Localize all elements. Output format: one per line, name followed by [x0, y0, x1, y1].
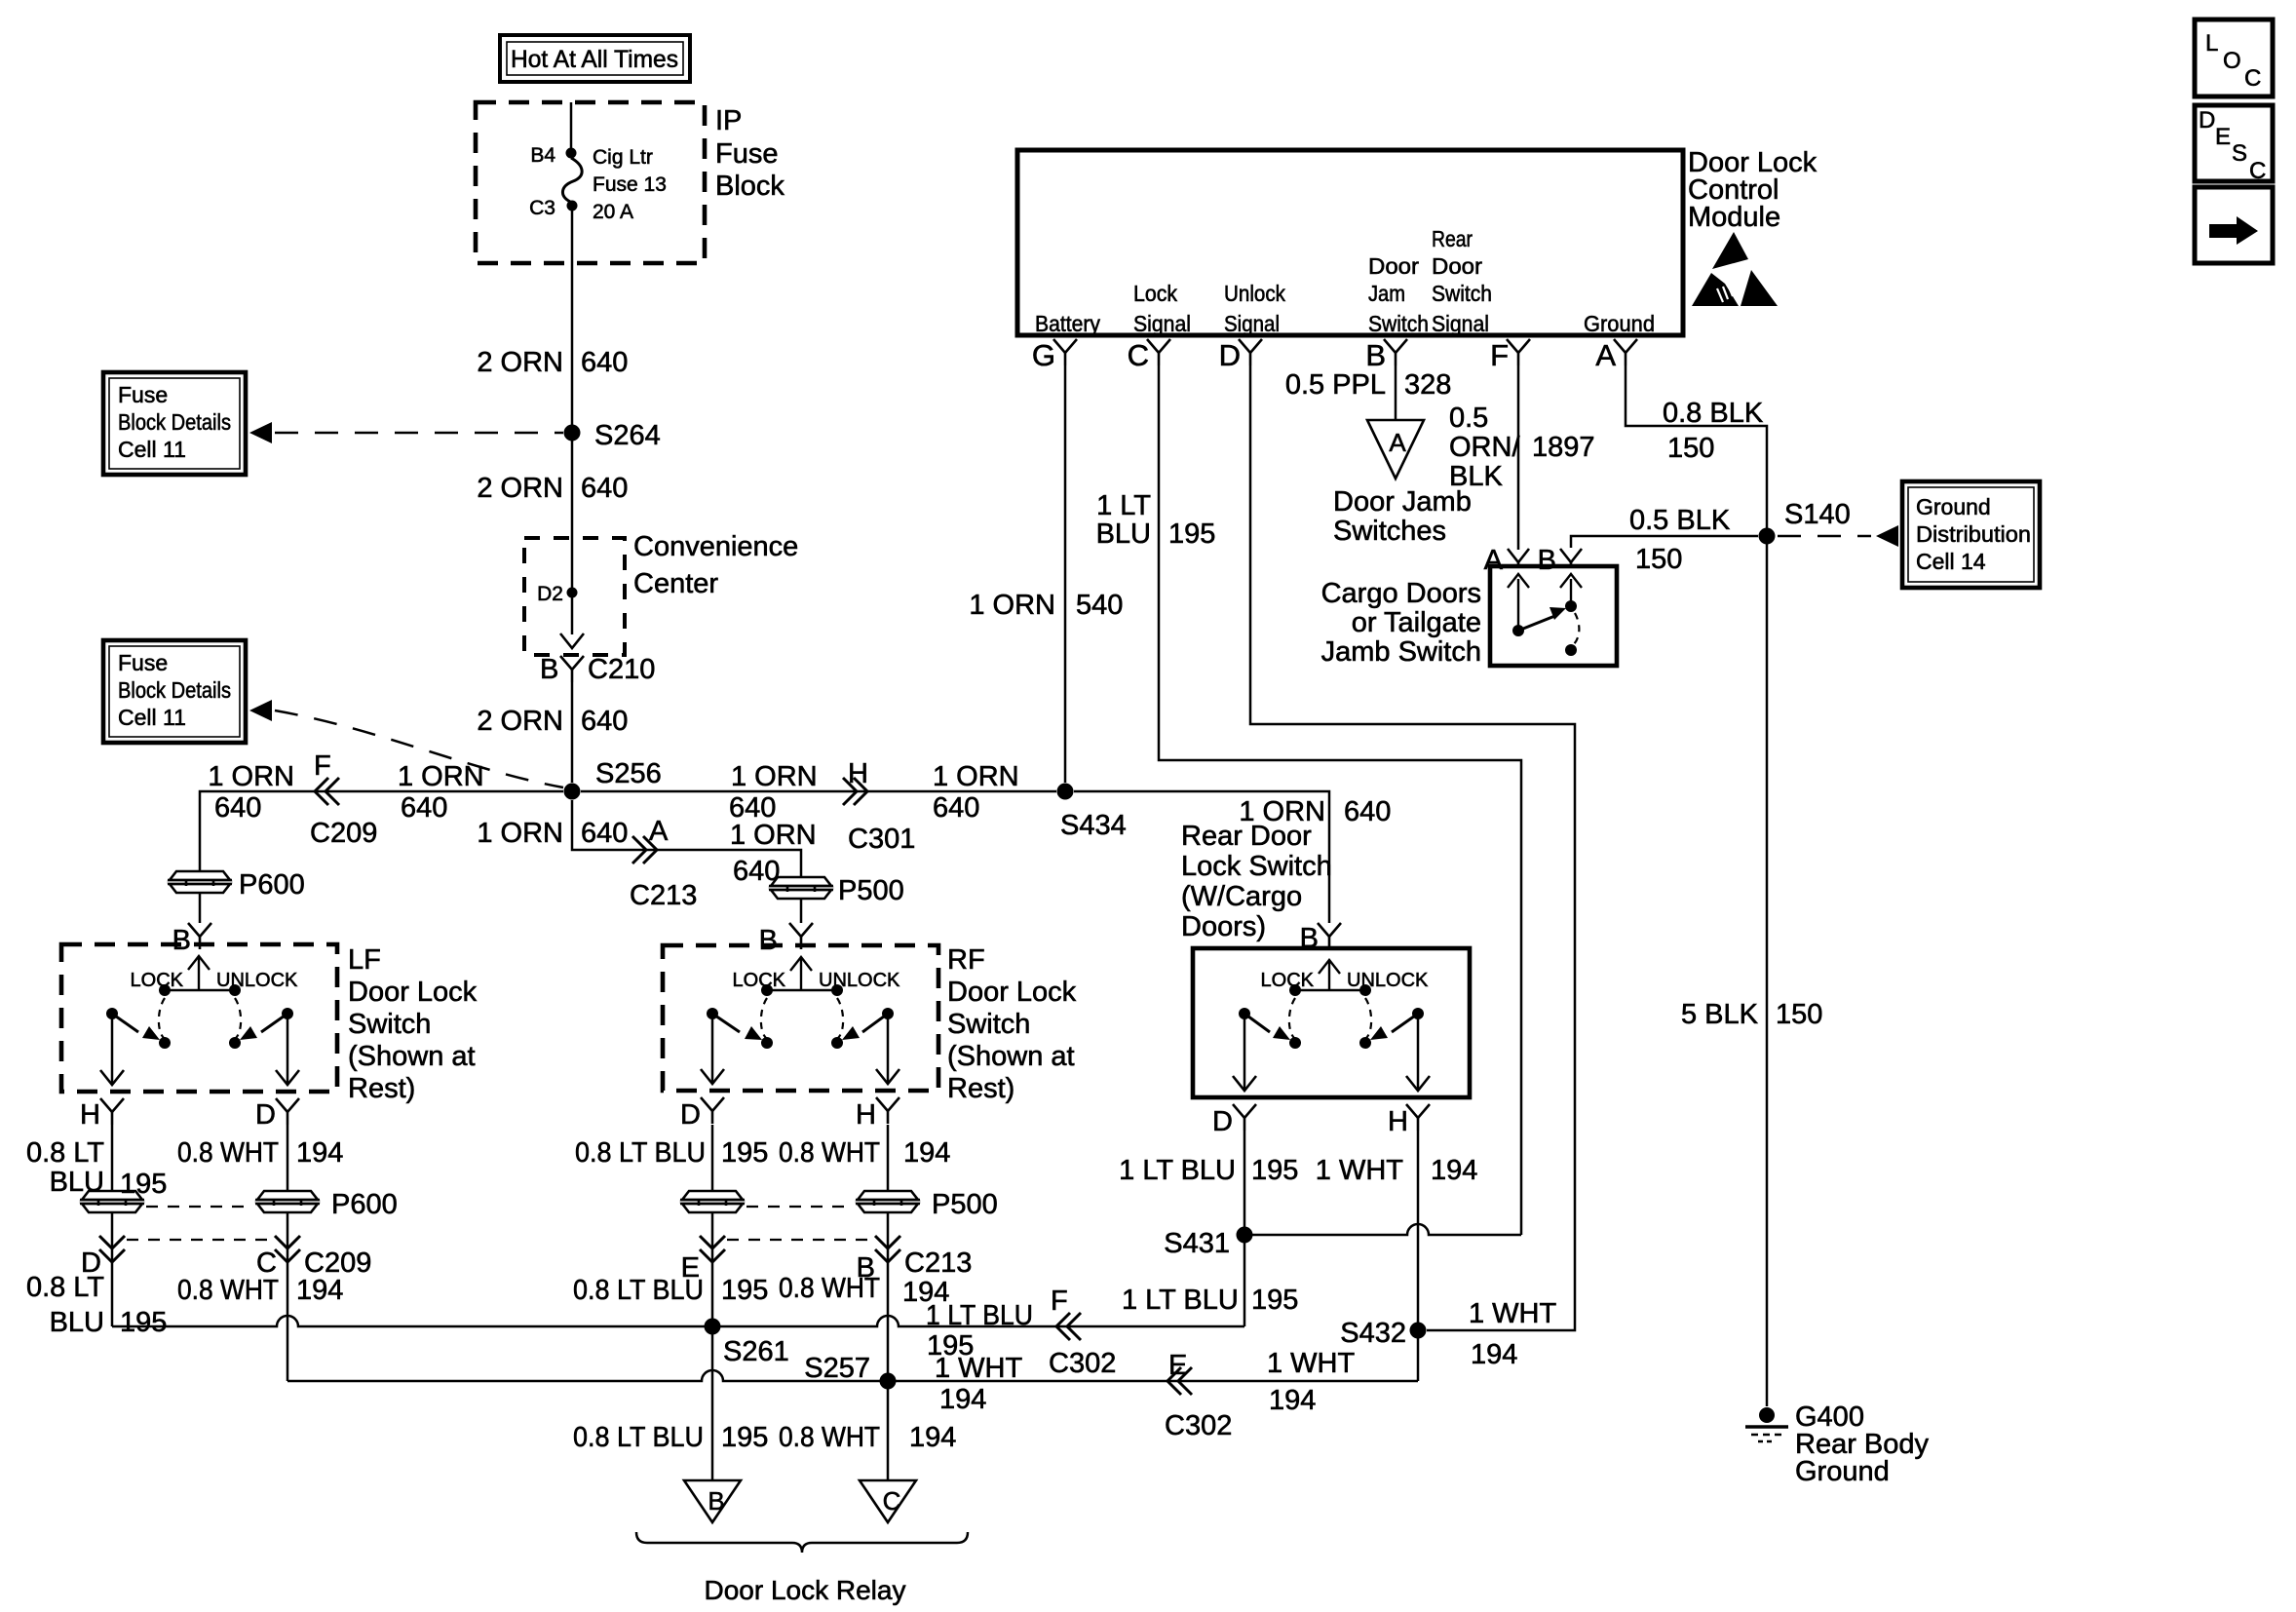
pin label B — [857, 1252, 875, 1284]
svg-text:B: B — [540, 654, 558, 685]
wire S261 to relay pin B — [711, 1326, 714, 1480]
arrowhead RF unlock output — [876, 1069, 899, 1084]
connector door lock relay pin B — [684, 1480, 741, 1522]
label Fuse 13 — [593, 173, 667, 196]
svg-text:LOCK: LOCK — [131, 970, 184, 991]
label S431 — [1164, 1228, 1230, 1259]
label P600 — [331, 1189, 398, 1220]
connector door lock relay pin C — [860, 1480, 916, 1522]
svg-text:C210: C210 — [588, 654, 655, 685]
svg-text:Battery: Battery — [1035, 311, 1100, 336]
svg-text:S257: S257 — [804, 1353, 870, 1384]
label S264 — [594, 420, 661, 451]
svg-text:Rear: Rear — [1432, 226, 1473, 251]
svg-text:1 ORN: 1 ORN — [208, 761, 294, 792]
svg-text:1 ORN: 1 ORN — [933, 761, 1019, 792]
label Block — [715, 171, 784, 202]
label C209 — [304, 1247, 371, 1279]
svg-text:C302: C302 — [1165, 1410, 1232, 1441]
label 1 ORN — [933, 761, 1019, 792]
connector C213 pin E inline — [700, 1236, 725, 1262]
svg-text:150: 150 — [1667, 433, 1714, 464]
splice S431 — [1237, 1227, 1253, 1244]
svg-text:640: 640 — [581, 347, 628, 378]
svg-text:BLK: BLK — [1449, 461, 1503, 492]
svg-text:D2: D2 — [537, 583, 563, 605]
svg-text:B: B — [1300, 923, 1319, 954]
label Cig Ltr — [593, 146, 653, 169]
LF lock pole wire — [111, 1014, 114, 1083]
arrowhead rear unlock output — [1406, 1076, 1430, 1091]
svg-text:Door Lock: Door Lock — [348, 977, 478, 1008]
svg-text:1 WHT: 1 WHT — [1469, 1298, 1557, 1329]
connector C209 pin C inline — [275, 1236, 300, 1262]
svg-text:Convenience: Convenience — [633, 531, 798, 562]
label 0.8 WHT — [779, 1273, 880, 1304]
label Door Lock — [1688, 147, 1818, 178]
label IP — [715, 105, 742, 136]
svg-text:UNLOCK: UNLOCK — [216, 970, 298, 991]
label BLU — [50, 1307, 104, 1338]
svg-text:C: C — [883, 1486, 901, 1516]
svg-text:Rest): Rest) — [947, 1073, 1014, 1104]
splice S264 — [564, 425, 581, 441]
wire P500 to RF switch pin B — [800, 899, 803, 923]
wire up to S432 — [1417, 1330, 1420, 1381]
arrowhead to ground distribution — [1876, 525, 1898, 547]
label BLU — [50, 1167, 104, 1198]
svg-text:Jam: Jam — [1368, 281, 1405, 306]
label 1 ORN — [730, 820, 817, 851]
label 640 — [729, 792, 776, 824]
wire feed into fuse — [570, 102, 573, 148]
label C210 — [588, 654, 655, 685]
RF unlock pole wire — [887, 1014, 890, 1082]
svg-text:Center: Center — [633, 568, 718, 599]
svg-text:Switch: Switch — [1368, 311, 1429, 336]
label 0.8 LT BLU — [573, 1275, 704, 1306]
connector module pin G — [1053, 339, 1077, 365]
pin label H — [848, 758, 868, 789]
svg-text:1 ORN: 1 ORN — [398, 761, 484, 792]
svg-text:or Tailgate: or Tailgate — [1352, 607, 1481, 638]
connector C213 pin A inline — [632, 836, 657, 864]
svg-text:0.8 BLK: 0.8 BLK — [1663, 398, 1764, 429]
label Lock — [1133, 281, 1177, 306]
pin label H — [80, 1099, 100, 1131]
connector LF pin B — [188, 923, 211, 949]
svg-text:D: D — [1219, 338, 1241, 372]
label 1897 — [1532, 432, 1595, 463]
power feed label box — [500, 35, 690, 82]
svg-text:194: 194 — [909, 1422, 956, 1453]
pin label B — [540, 654, 558, 685]
svg-text:D: D — [255, 1099, 276, 1131]
label 194 — [1471, 1339, 1517, 1370]
arrowhead to fuse block details 1 — [249, 422, 272, 443]
svg-text:F: F — [1490, 338, 1509, 372]
svg-text:640: 640 — [214, 792, 261, 824]
svg-text:Cell 11: Cell 11 — [118, 437, 186, 462]
label 1 ORN — [398, 761, 484, 792]
svg-text:195: 195 — [1251, 1155, 1298, 1186]
svg-text:C: C — [2244, 65, 2261, 92]
dashed tie C209 pair — [127, 1239, 273, 1241]
label G400 — [1795, 1401, 1864, 1433]
svg-text:2 ORN: 2 ORN — [477, 473, 563, 504]
svg-text:2 ORN: 2 ORN — [477, 706, 563, 737]
LF door lock switch outline — [61, 944, 337, 1092]
svg-text:Switch: Switch — [947, 1009, 1030, 1040]
rear lock pole wire — [1244, 1014, 1246, 1089]
pin label H — [856, 1099, 876, 1131]
wire unlock signal run S257 to S432 — [287, 1370, 1418, 1381]
svg-text:1 ORN: 1 ORN — [730, 820, 817, 851]
svg-text:IP: IP — [715, 105, 742, 136]
rear door lock switch outline — [1193, 948, 1470, 1097]
svg-text:B: B — [172, 925, 191, 956]
label Switch — [1368, 311, 1429, 336]
svg-text:S261: S261 — [723, 1336, 789, 1367]
ground G400 — [1759, 1407, 1775, 1423]
wire C302 F up to S431 — [1244, 1235, 1246, 1326]
svg-text:Unlock: Unlock — [1224, 281, 1285, 306]
wire S434 to rear door lock switch B — [1074, 791, 1329, 923]
label 0.5 PPL — [1285, 369, 1386, 401]
svg-text:Fuse: Fuse — [118, 650, 168, 675]
dashed tie C213 pair — [727, 1239, 873, 1241]
pin label C — [1128, 338, 1149, 372]
splice S256 — [564, 784, 581, 800]
RF door lock switch outline — [663, 945, 938, 1091]
label C301 — [848, 824, 915, 855]
svg-text:P500: P500 — [838, 875, 904, 906]
pin label B — [1538, 545, 1556, 576]
dashed tie P600 pair — [146, 1206, 253, 1208]
svg-text:0.8 WHT: 0.8 WHT — [779, 1273, 880, 1304]
label 195 — [721, 1275, 768, 1306]
wire rear H to S432 — [1417, 1131, 1420, 1330]
wire S256 left to P600 branch — [200, 791, 563, 870]
label 0.5 — [1449, 403, 1488, 434]
svg-text:Door: Door — [1432, 253, 1482, 279]
svg-text:194: 194 — [903, 1137, 950, 1169]
label 194 — [1269, 1385, 1316, 1416]
svg-text:Jamb Switch: Jamb Switch — [1321, 636, 1481, 668]
label Switch — [1432, 281, 1492, 306]
label Ground — [1584, 311, 1655, 336]
connector cargo switch pin A — [1508, 549, 1529, 567]
svg-text:D: D — [1212, 1106, 1233, 1137]
label 640 — [401, 792, 447, 824]
label C302 — [1165, 1410, 1232, 1441]
svg-text:S256: S256 — [595, 758, 662, 789]
label ORN/ — [1449, 432, 1520, 463]
label 194 — [296, 1137, 343, 1169]
svg-text:Signal: Signal — [1432, 311, 1489, 336]
label Rear Body — [1795, 1429, 1930, 1460]
connector P500 pass-through left — [680, 1191, 745, 1212]
label Jam — [1368, 281, 1405, 306]
svg-text:Ground: Ground — [1584, 311, 1655, 336]
svg-text:Block: Block — [715, 171, 784, 202]
label 640 — [733, 856, 780, 887]
connector RF pin B — [789, 923, 813, 949]
pin label D — [1212, 1106, 1233, 1137]
pin label G — [1032, 338, 1055, 372]
svg-text:G: G — [1032, 338, 1055, 372]
svg-text:195: 195 — [721, 1422, 768, 1453]
door lock control module outline — [1017, 150, 1683, 335]
svg-text:P500: P500 — [932, 1189, 998, 1220]
fuse block details callout 2 — [103, 640, 246, 743]
label 1 ORN — [969, 590, 1055, 621]
wire RF D to P500 — [711, 1125, 714, 1191]
svg-text:B: B — [1365, 338, 1386, 372]
label 0.5 BLK — [1629, 505, 1731, 536]
label Unlock — [1224, 281, 1285, 306]
wire unlock signal D to S432 — [1250, 365, 1575, 1330]
wire through convenience center — [571, 538, 574, 634]
pin label D — [255, 1099, 276, 1131]
svg-text:194: 194 — [296, 1275, 343, 1306]
connector P600 pass-through right — [255, 1191, 320, 1212]
connector P600 pass-through — [168, 871, 232, 893]
label Cargo Doors — [1321, 578, 1481, 609]
label S140 — [1784, 499, 1851, 530]
svg-text:1 WHT: 1 WHT — [935, 1353, 1023, 1384]
label 640 — [581, 473, 628, 504]
label 195 — [120, 1169, 167, 1200]
svg-text:RF: RF — [947, 944, 985, 976]
svg-text:0.8 WHT: 0.8 WHT — [177, 1275, 279, 1306]
label 2 ORN — [477, 347, 563, 378]
next page arrow box — [2195, 187, 2273, 263]
svg-text:(W/Cargo: (W/Cargo — [1181, 881, 1302, 912]
arrowhead RF lock output — [701, 1069, 724, 1084]
svg-text:L: L — [2205, 30, 2218, 57]
svg-text:BLU: BLU — [50, 1307, 104, 1338]
connector P500 pass-through right — [856, 1191, 920, 1212]
svg-text:Signal: Signal — [1224, 311, 1280, 336]
svg-text:150: 150 — [1776, 999, 1822, 1030]
wire LF H to P600 — [111, 1125, 114, 1191]
label S261 — [723, 1336, 789, 1367]
svg-text:LOCK: LOCK — [733, 970, 786, 991]
wire battery G to S434 — [1064, 365, 1067, 783]
splice S257 — [880, 1373, 897, 1390]
label Control — [1688, 174, 1779, 206]
connector door jamb A — [1367, 420, 1424, 479]
arrowhead LF lock output — [100, 1070, 124, 1085]
pin label E — [681, 1252, 700, 1284]
label 2 ORN — [477, 473, 563, 504]
svg-text:Module: Module — [1688, 202, 1780, 233]
svg-text:C213: C213 — [904, 1247, 972, 1279]
rear unlock pole wire — [1417, 1014, 1420, 1089]
wire P600 to LF switch pin B — [199, 894, 202, 923]
svg-text:Switches: Switches — [1333, 516, 1446, 547]
svg-text:640: 640 — [933, 792, 979, 824]
svg-text:A: A — [1484, 545, 1504, 576]
svg-text:195: 195 — [1251, 1285, 1298, 1316]
label 1 ORN — [208, 761, 294, 792]
svg-text:A: A — [1389, 428, 1406, 457]
label 0.8 WHT — [177, 1275, 279, 1306]
label 1 LT BLU — [926, 1300, 1033, 1331]
label 640 — [581, 347, 628, 378]
svg-text:195: 195 — [120, 1169, 167, 1200]
svg-text:5 BLK: 5 BLK — [1681, 999, 1759, 1030]
svg-text:0.8 WHT: 0.8 WHT — [779, 1422, 880, 1453]
label 0.8 LT — [26, 1272, 104, 1303]
label 194 — [296, 1275, 343, 1306]
svg-text:S140: S140 — [1784, 499, 1851, 530]
label Fuse — [715, 138, 778, 170]
svg-text:640: 640 — [581, 706, 628, 737]
ground distribution callout — [1902, 481, 2040, 588]
RF lock pole wire — [711, 1014, 714, 1082]
pin label B — [1365, 338, 1386, 372]
label Door Jamb — [1333, 486, 1472, 518]
DESC key box — [2195, 105, 2273, 184]
label Rest — [947, 1073, 1014, 1104]
wire S256 to S434 — [581, 790, 1056, 793]
svg-text:195: 195 — [721, 1137, 768, 1169]
label Lock Switch — [1181, 851, 1332, 882]
pin label D2 — [537, 583, 563, 605]
svg-text:C: C — [1128, 338, 1149, 372]
svg-text:E: E — [1168, 1350, 1187, 1381]
label Switch — [947, 1009, 1030, 1040]
svg-text:640: 640 — [581, 473, 628, 504]
connector module pin C — [1147, 339, 1170, 365]
label C209 — [310, 818, 377, 849]
label Battery — [1035, 311, 1100, 336]
svg-text:0.8 WHT: 0.8 WHT — [779, 1137, 880, 1169]
fuse block details callout 1 — [103, 372, 246, 475]
svg-text:H: H — [1388, 1106, 1408, 1137]
svg-text:1 WHT: 1 WHT — [1267, 1348, 1356, 1379]
label Cell 14 — [1916, 549, 1986, 574]
label 640 — [1344, 796, 1391, 827]
svg-text:1 ORN: 1 ORN — [477, 818, 563, 849]
svg-text:(Shown at: (Shown at — [947, 1041, 1075, 1072]
label C302 — [1049, 1348, 1116, 1379]
label LF — [348, 944, 381, 976]
label 2 ORN — [477, 706, 563, 737]
svg-text:194: 194 — [1431, 1155, 1477, 1186]
label 1 WHT — [1316, 1155, 1404, 1186]
dashed tie P500 pair — [746, 1206, 854, 1208]
label 195 — [1251, 1285, 1298, 1316]
label 640 — [933, 792, 979, 824]
connector rear pin H — [1406, 1104, 1430, 1131]
convenience center outline — [524, 538, 625, 655]
svg-text:C302: C302 — [1049, 1348, 1116, 1379]
connector RF pin H — [876, 1097, 899, 1124]
svg-text:H: H — [848, 758, 868, 789]
label 150 — [1776, 999, 1822, 1030]
fuse F13 element — [562, 158, 582, 202]
svg-text:B: B — [708, 1486, 724, 1516]
svg-text:0.8 LT BLU: 0.8 LT BLU — [573, 1422, 704, 1453]
label 150 — [1635, 544, 1682, 575]
svg-text:Cig Ltr: Cig Ltr — [593, 146, 653, 169]
pin label B — [759, 925, 778, 956]
label Door — [1368, 253, 1419, 279]
svg-text:195: 195 — [120, 1307, 167, 1338]
svg-text:Door Lock Relay: Door Lock Relay — [705, 1575, 906, 1605]
fuse pin C3 — [567, 201, 578, 211]
svg-text:ORN/: ORN/ — [1449, 432, 1520, 463]
arrowhead rear lock output — [1233, 1076, 1256, 1091]
wire P500 to C213 pin E down to S261 — [711, 1212, 714, 1326]
svg-text:C: C — [2249, 158, 2266, 184]
label Block Details — [118, 409, 231, 435]
label RF — [947, 944, 985, 976]
wire RF H to P500 — [887, 1125, 890, 1191]
svg-text:B4: B4 — [530, 144, 555, 167]
LF switch contacts — [106, 956, 298, 1049]
svg-text:150: 150 — [1635, 544, 1682, 575]
svg-text:S: S — [2232, 140, 2247, 167]
svg-text:E: E — [2215, 124, 2231, 150]
svg-text:1 LT BLU: 1 LT BLU — [926, 1300, 1033, 1331]
connector C210 — [560, 656, 584, 682]
svg-text:H: H — [856, 1099, 876, 1131]
svg-text:P600: P600 — [331, 1189, 398, 1220]
ESD sensitive symbol — [1692, 232, 1778, 306]
wire ground A to G400 — [1626, 365, 1767, 1406]
svg-text:D: D — [2199, 107, 2215, 134]
pin label D — [81, 1247, 101, 1279]
label Signal — [1133, 311, 1191, 336]
dashed reference line to S264 — [275, 432, 563, 435]
label 1 ORN — [477, 818, 563, 849]
label 1 WHT — [1267, 1348, 1356, 1379]
svg-text:BLU: BLU — [50, 1167, 104, 1198]
svg-text:Lock: Lock — [1133, 281, 1177, 306]
svg-text:0.8 LT BLU: 0.8 LT BLU — [573, 1275, 704, 1306]
svg-text:Block Details: Block Details — [118, 409, 231, 435]
pin label H — [1388, 1106, 1408, 1137]
svg-text:Door: Door — [1368, 253, 1419, 279]
pin label E — [1168, 1350, 1187, 1381]
svg-text:640: 640 — [1344, 796, 1391, 827]
wire C210 to S256 — [571, 682, 574, 783]
pin label B — [172, 925, 191, 956]
svg-text:B: B — [1538, 545, 1556, 576]
svg-text:0.8 LT: 0.8 LT — [26, 1137, 104, 1169]
label Rest — [348, 1073, 415, 1104]
label Block Details — [118, 677, 231, 703]
connector rear pin D — [1233, 1104, 1256, 1131]
pin label C — [256, 1247, 277, 1279]
label 194 — [1431, 1155, 1477, 1186]
label 0.8 LT — [26, 1137, 104, 1169]
label S256 — [595, 758, 662, 789]
svg-text:Cargo Doors: Cargo Doors — [1321, 578, 1481, 609]
label 1 WHT — [1469, 1298, 1557, 1329]
label 195 — [1251, 1155, 1298, 1186]
svg-text:Cell 11: Cell 11 — [118, 705, 186, 730]
splice S261 — [705, 1319, 721, 1335]
label P600 — [239, 869, 305, 901]
label S432 — [1340, 1318, 1406, 1349]
svg-text:F: F — [1051, 1286, 1068, 1317]
svg-text:1 LT: 1 LT — [1096, 490, 1151, 521]
